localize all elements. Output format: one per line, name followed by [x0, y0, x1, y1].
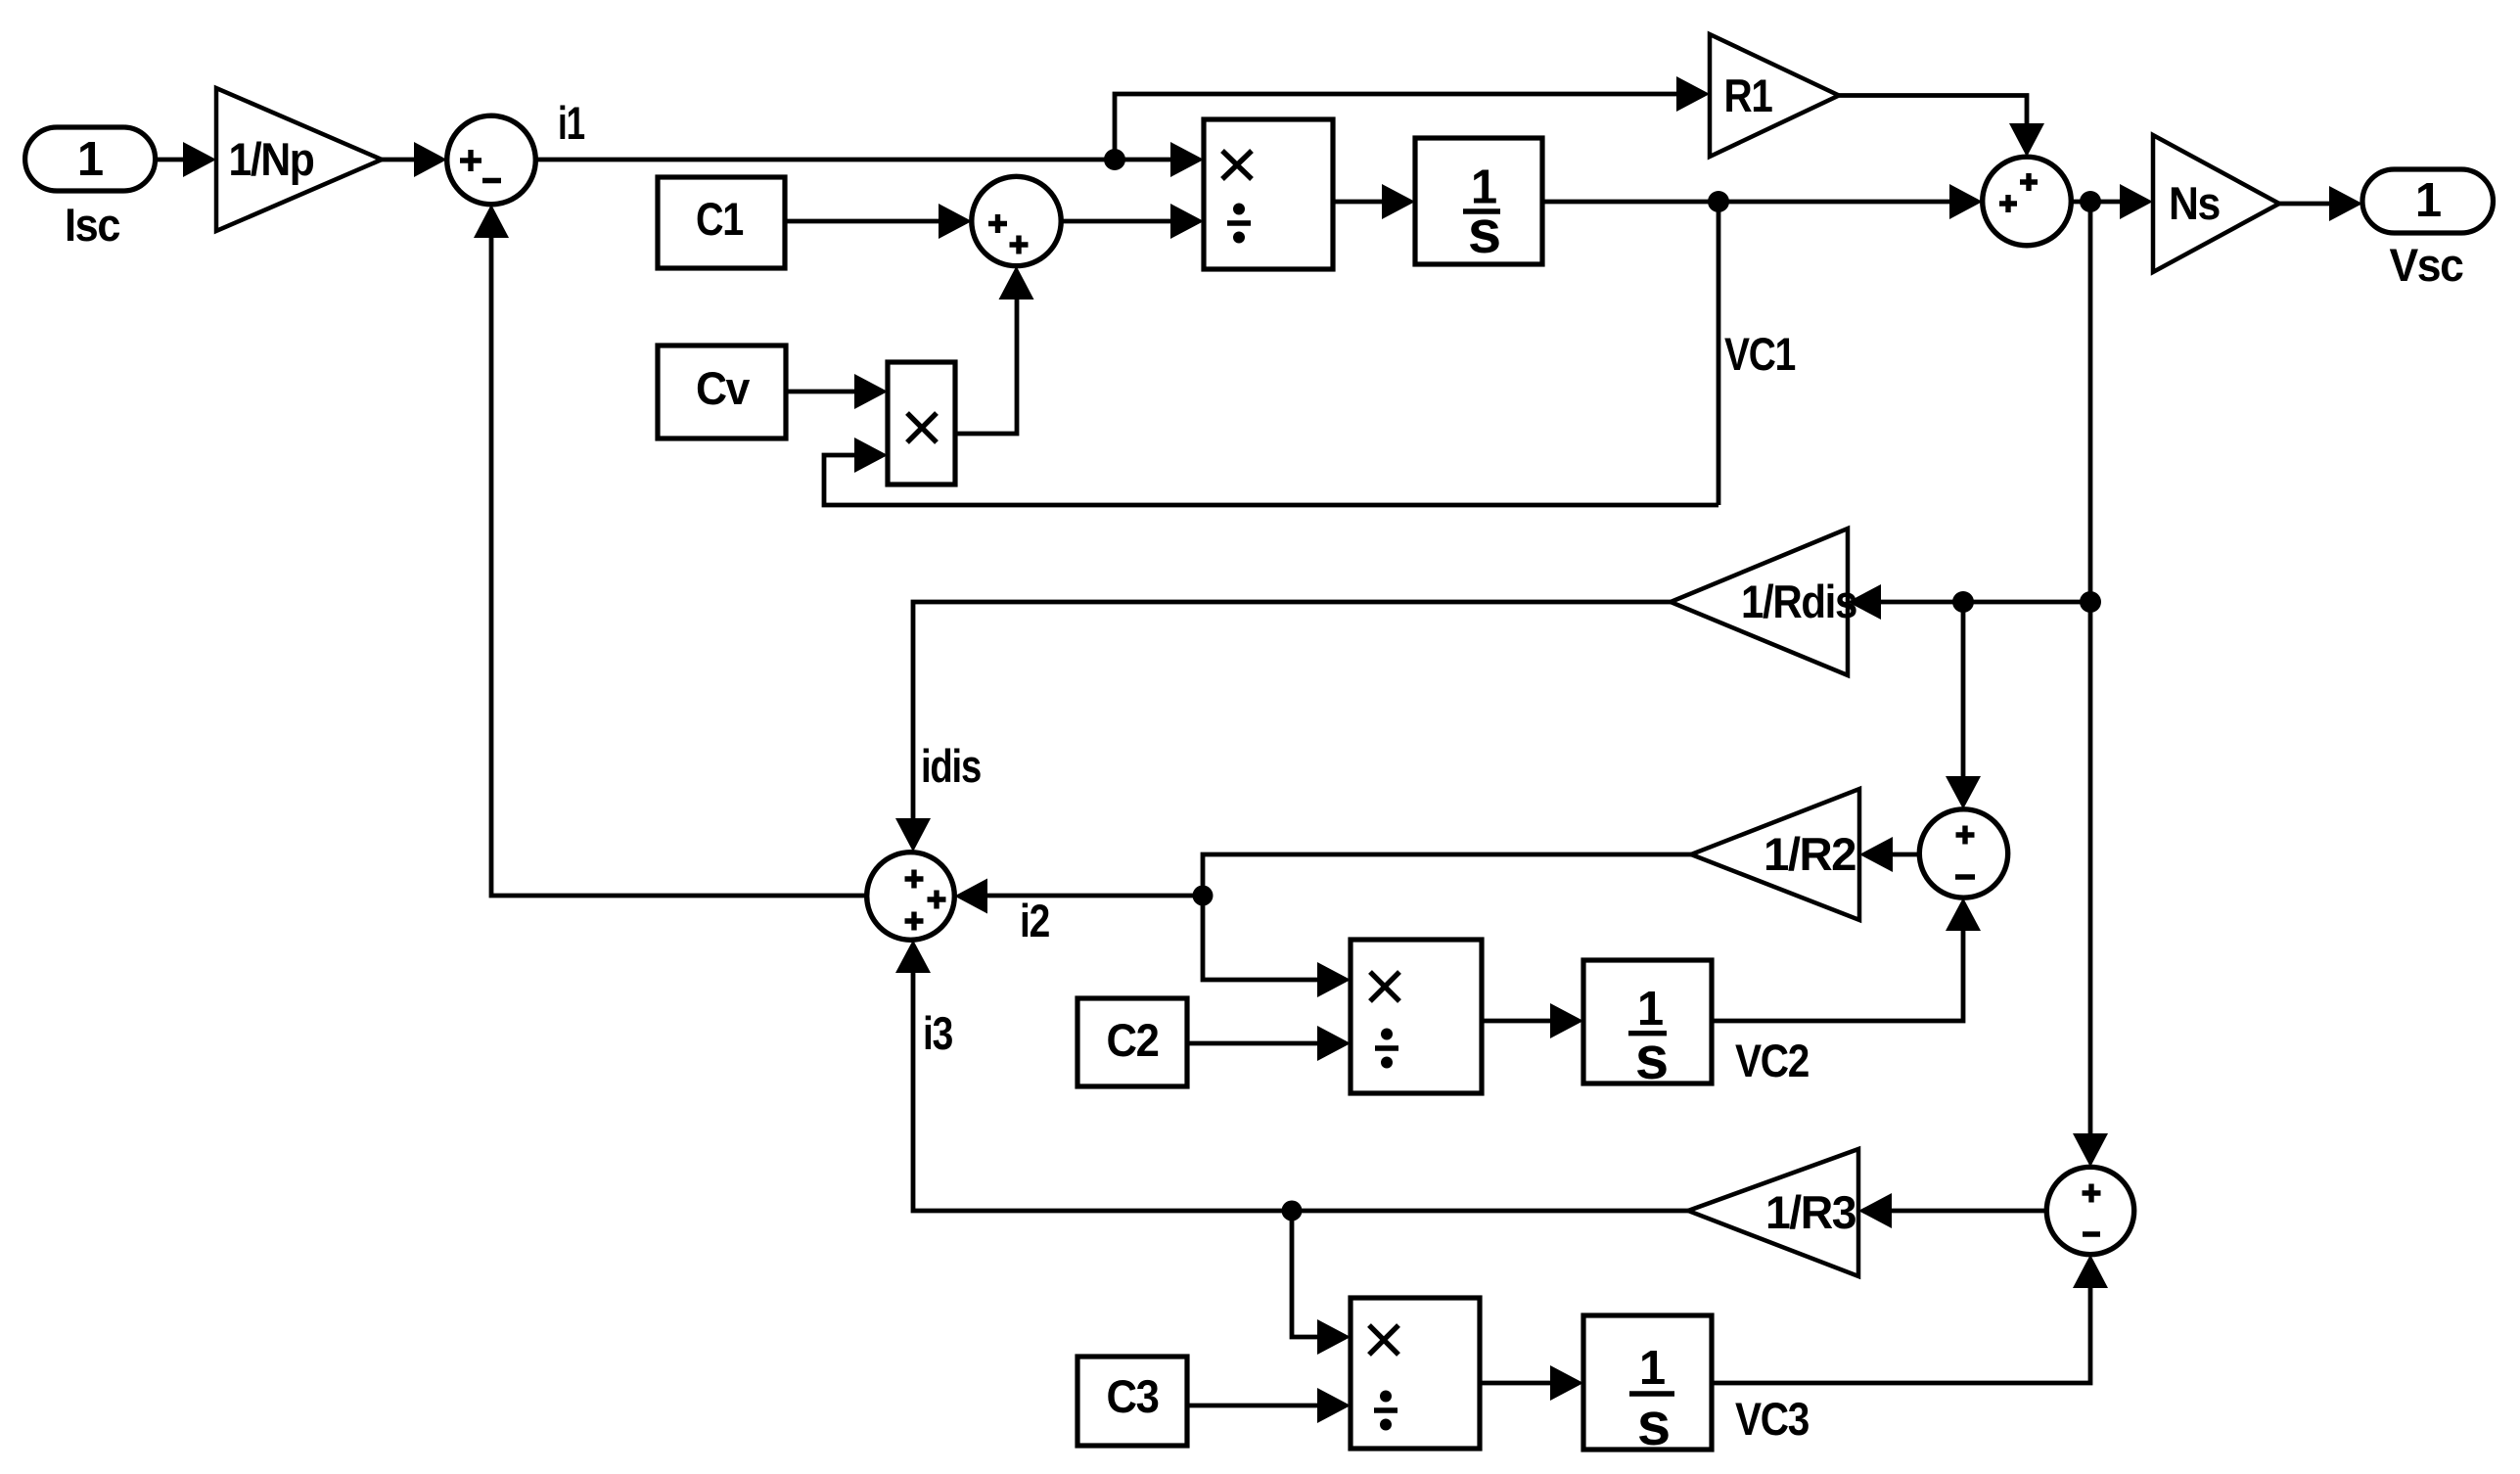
arrowhead into R2 bottom — [1946, 898, 1981, 931]
wire port1 to 1/Np — [156, 158, 191, 162]
arrowhead into integrator3 — [1550, 1365, 1583, 1401]
arrowhead into R2 top — [1946, 776, 1981, 809]
gain 1/Np — [216, 88, 382, 231]
svg-text:s: s — [1635, 1025, 1669, 1092]
product block Cv*VC1 — [888, 362, 955, 484]
svg-text:1: 1 — [1639, 1342, 1665, 1395]
arrowhead up into sum2 — [999, 266, 1034, 299]
wire sum2 to product1 divide-input — [1061, 219, 1174, 224]
wire product2 to integrator2 — [1482, 1019, 1554, 1024]
svg-text:1/R2: 1/R2 — [1764, 828, 1856, 880]
svg-text:s: s — [1637, 1391, 1671, 1458]
wire i1: sum1 to product1 x-input — [535, 158, 1174, 162]
svg-text:VC3: VC3 — [1735, 1393, 1809, 1445]
arrowhead into 1/R3 — [1858, 1193, 1892, 1228]
wire i2 junction down to product2 — [1203, 896, 1321, 980]
wire R3 junction down to product3 — [1292, 1211, 1321, 1337]
junction dot i2 — [1193, 886, 1214, 906]
svg-text:C3: C3 — [1107, 1370, 1159, 1422]
arrowhead into sum2 — [939, 204, 972, 239]
junction dot sum3 output — [2080, 191, 2101, 212]
wire R3 circle to 1/R3 — [1888, 1209, 2046, 1214]
gain Ns — [2153, 135, 2279, 272]
wire i1 riser to R1 row — [1115, 94, 1679, 160]
arrowhead into productCv input1 — [854, 374, 888, 409]
junction dot i1 — [1104, 149, 1125, 170]
wire i2 into sum4 — [984, 894, 1203, 898]
junction dot Rdis-R2 — [1952, 591, 1974, 613]
wire productCv output to sum2 (bottom) — [955, 294, 1017, 434]
wire sum3 to Ns — [2071, 200, 2124, 205]
arrowhead feedback into sum1 bottom — [474, 205, 509, 238]
arrowhead into product2 x-input — [1317, 962, 1351, 997]
arrowhead into integrator2 — [1550, 1003, 1583, 1038]
input port 1 (Isc inport oval) — [25, 127, 156, 191]
junction dot Rdis-main — [2080, 591, 2101, 613]
wire 1/Rdis output to idis riser — [913, 602, 1671, 822]
svg-text:Isc: Isc — [65, 199, 119, 251]
svg-text:s: s — [1468, 199, 1501, 266]
svg-text:Vsc: Vsc — [2390, 239, 2463, 291]
svg-text:Cv: Cv — [696, 362, 750, 414]
sum junction S1 (+ -) — [447, 115, 536, 205]
wire R1 to sum3 (top) — [1839, 96, 2027, 128]
wire C2 to product2 divide-input — [1187, 1041, 1321, 1046]
wire VC1 feedback into productCv input2 — [824, 455, 1718, 505]
sum junction R2 (+ -) — [1919, 809, 2007, 898]
svg-text:1: 1 — [2415, 174, 2441, 227]
constant block C3 — [1077, 1357, 1187, 1446]
gain 1/R2 (points left) — [1691, 789, 1859, 920]
wire C3 to product3 divide-input — [1187, 1404, 1321, 1408]
svg-text:C1: C1 — [696, 193, 743, 245]
arrowhead into productCv input2 — [854, 438, 888, 473]
arrowhead into product3 x-input — [1317, 1319, 1351, 1355]
arrowhead into R3 bottom — [2073, 1255, 2108, 1288]
wire 1/Np to sum1 — [382, 158, 421, 162]
wire product1 to integrator1 — [1333, 200, 1386, 205]
junction dot R3 output — [1282, 1201, 1303, 1221]
wire Cv to productCv — [786, 390, 859, 394]
wire main vertical from sum3 output down — [2088, 202, 2093, 1137]
arrowhead into integrator1 — [1382, 184, 1415, 219]
constant block C1 — [658, 177, 785, 268]
wire VC1 junction riser down — [1717, 202, 1721, 505]
arrowhead i3 into sum4 bottom — [895, 940, 931, 973]
arrowhead into R1 — [1676, 76, 1710, 112]
svg-text:i2: i2 — [1020, 895, 1049, 946]
wire C1 to sum2 — [785, 219, 944, 224]
gain R1 — [1710, 34, 1839, 157]
wire R2 circle to 1/R2 — [1889, 852, 1919, 857]
svg-text:C2: C2 — [1107, 1014, 1159, 1066]
arrowhead i2 into sum4 — [954, 879, 987, 914]
svg-text:i1: i1 — [558, 97, 584, 149]
wire 1/R2 output to i2 junction — [1203, 854, 1691, 891]
svg-text:1/Rdis: 1/Rdis — [1741, 576, 1856, 627]
product block P2 (x over divide) — [1351, 940, 1482, 1093]
arrowhead into output port — [2329, 186, 2362, 221]
output port 1 (Vsc outport oval) — [2362, 169, 2494, 233]
wire 1/R3 output to i3 riser — [913, 969, 1688, 1211]
junction dot VC1 — [1708, 191, 1729, 212]
wire product3 to integrator3 — [1480, 1381, 1554, 1386]
wire VC2 feedback to R2 bottom — [1712, 928, 1963, 1021]
gain 1/Rdis (points left) — [1671, 529, 1856, 675]
wire integrator1 to sum3 — [1542, 200, 1953, 205]
gain 1/R3 (points left) — [1688, 1149, 1858, 1276]
svg-text:1/Np: 1/Np — [229, 133, 314, 185]
svg-text:VC1: VC1 — [1724, 328, 1795, 380]
svg-text:idis: idis — [921, 740, 981, 792]
arrowhead into 1/Rdis — [1848, 584, 1881, 620]
arrowhead into sum3 left — [1949, 184, 1983, 219]
sum junction S2 (+ +) — [972, 176, 1061, 265]
wire Ns to output port — [2279, 202, 2334, 207]
wire Rdis row — [1877, 600, 2090, 605]
arrowhead into product1 x-input — [1170, 142, 1204, 177]
svg-text:R1: R1 — [1724, 69, 1772, 121]
arrowhead into sum1 — [414, 142, 447, 177]
wire R2 top input riser — [1961, 602, 1966, 781]
svg-text:i3: i3 — [923, 1007, 952, 1059]
arrowhead into R3 top — [2073, 1133, 2108, 1167]
product block P3 (x over divide) — [1351, 1298, 1480, 1449]
svg-text:Ns: Ns — [2169, 177, 2220, 229]
arrowhead into 1/R2 — [1859, 837, 1893, 872]
svg-text:1/R3: 1/R3 — [1765, 1186, 1856, 1238]
arrowhead into 1/Np — [183, 142, 216, 177]
sum junction S3 (+ +) — [1983, 157, 2072, 246]
arrowhead idis into sum4 top — [895, 818, 931, 852]
arrowhead down into sum3 — [2009, 123, 2044, 157]
integrator block 1/s #3 — [1583, 1315, 1712, 1458]
integrator block 1/s #1 — [1415, 138, 1542, 266]
product block P1 (x over divide) — [1204, 119, 1333, 269]
wire VC3 feedback to R3 bottom — [1712, 1284, 2090, 1383]
arrowhead into product3 divide-input — [1317, 1388, 1351, 1423]
wire sum4 output feedback to sum1 — [491, 233, 867, 896]
arrowhead into product2 divide-input — [1317, 1026, 1351, 1061]
arrowhead into product1 divide-input — [1170, 204, 1204, 239]
constant block Cv — [658, 345, 786, 438]
svg-text:1: 1 — [77, 133, 103, 186]
sum junction S4 (+ + +) — [867, 852, 955, 941]
svg-text:VC2: VC2 — [1735, 1035, 1809, 1086]
integrator block 1/s #2 — [1583, 960, 1712, 1092]
arrowhead into Ns — [2120, 184, 2153, 219]
constant block C2 — [1077, 998, 1187, 1086]
sum junction R3 (+ -) — [2046, 1167, 2133, 1254]
